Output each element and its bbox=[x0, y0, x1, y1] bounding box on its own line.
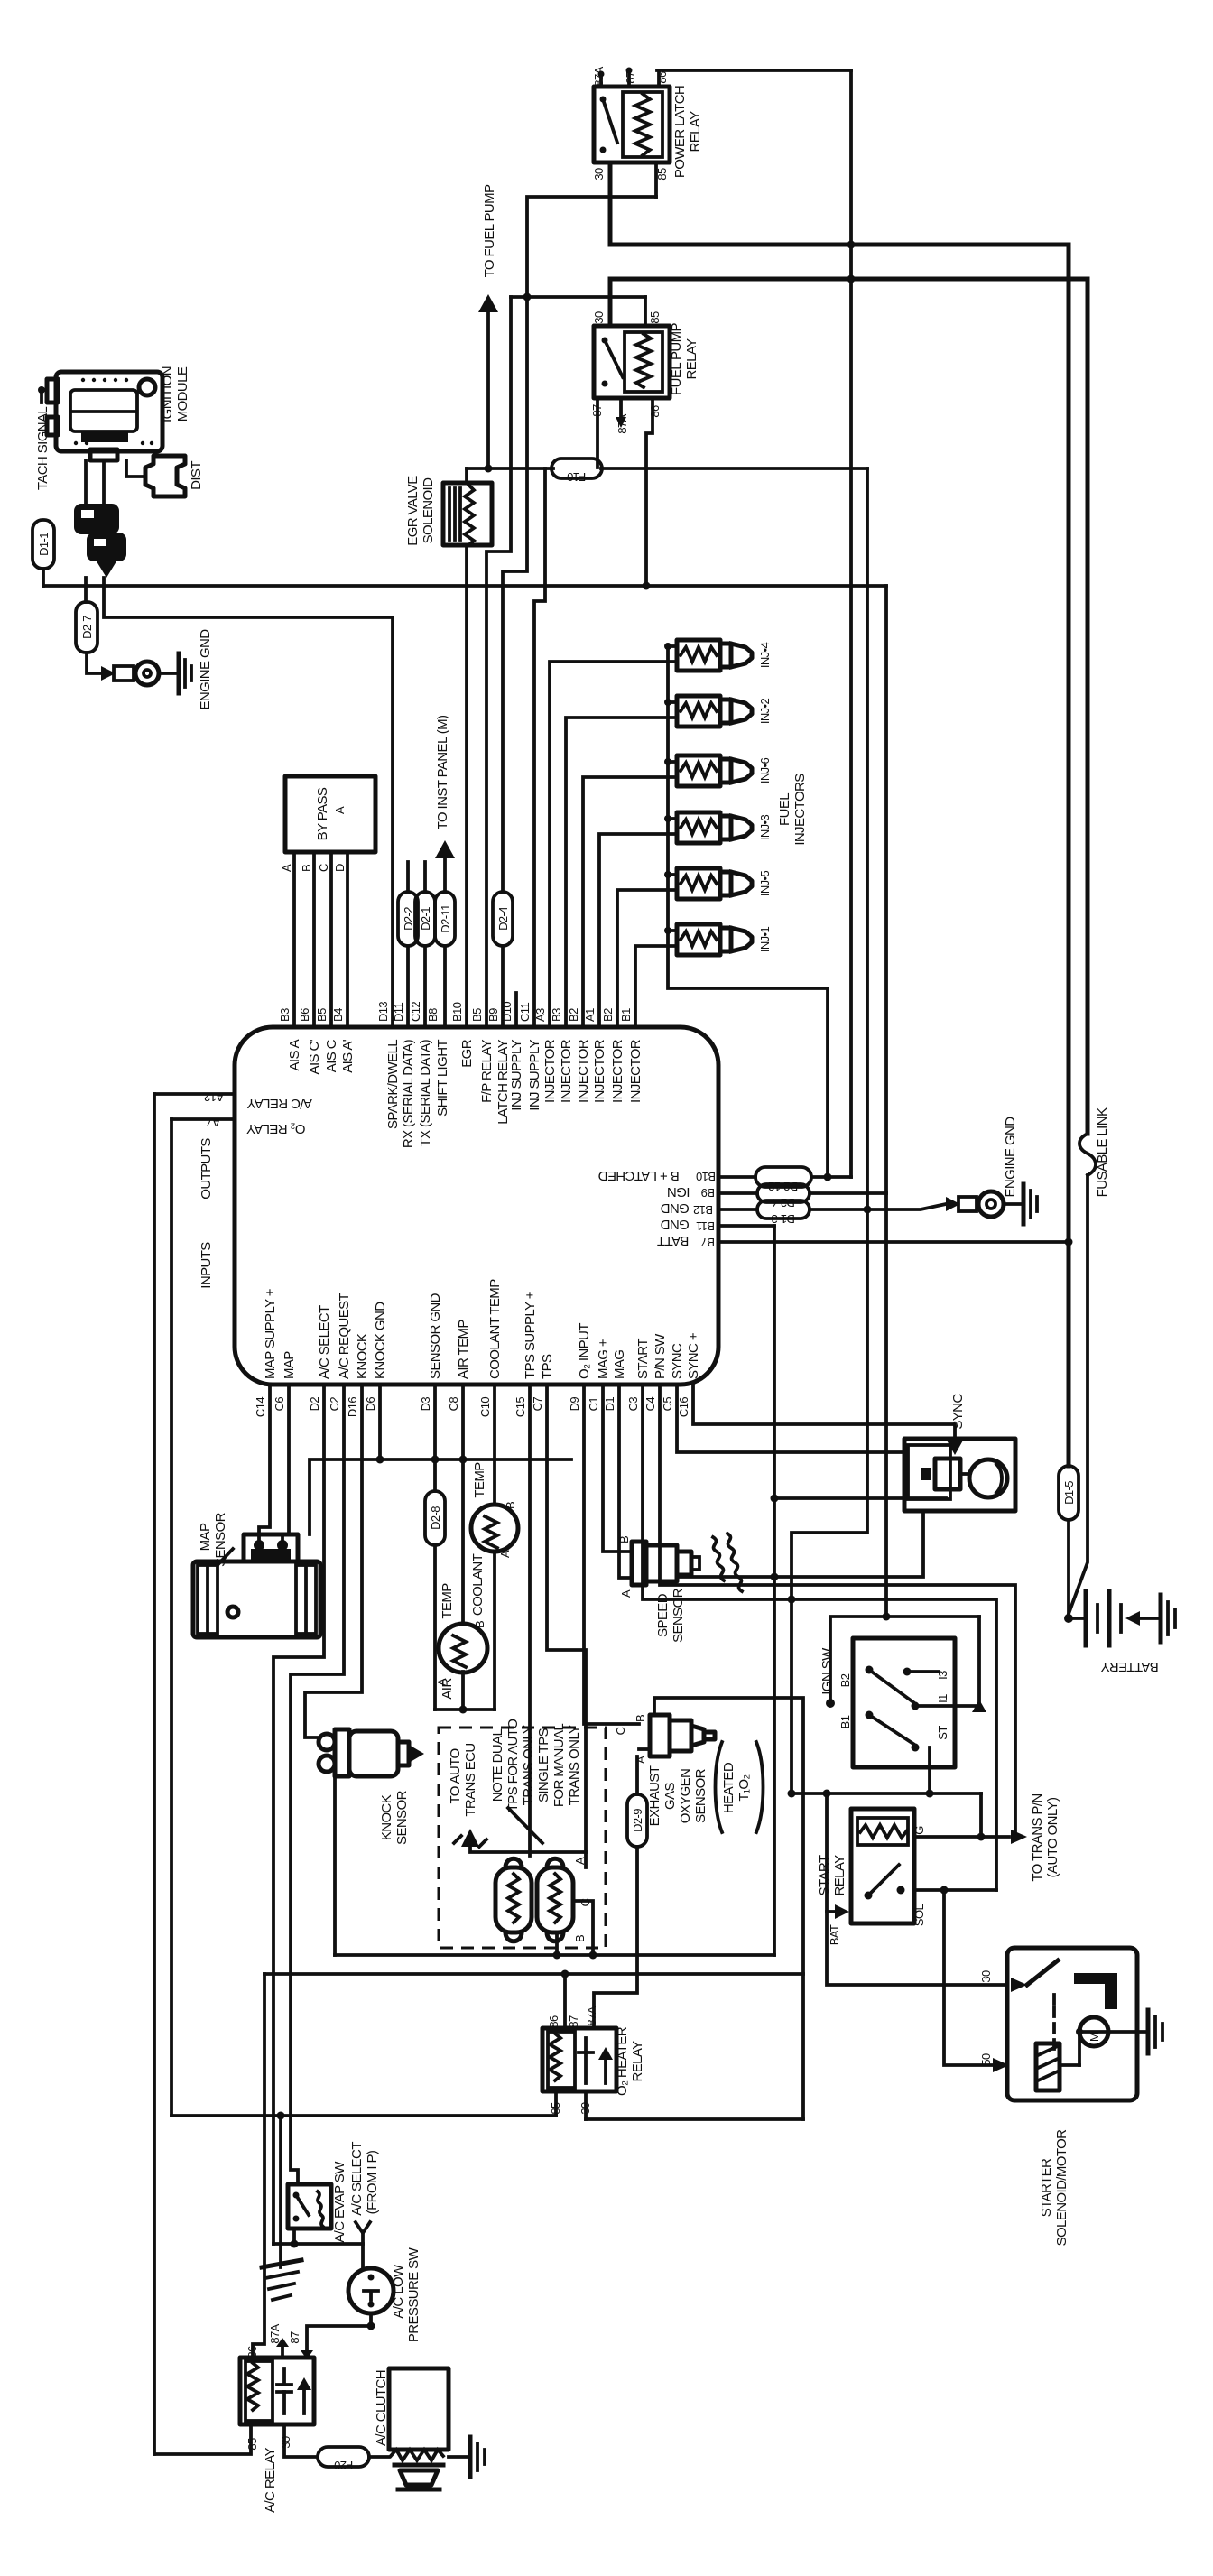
svg-text:TRANS ONLY: TRANS ONLY bbox=[567, 1725, 582, 1805]
EGO oxygen sensor bbox=[639, 1715, 715, 1756]
svg-text:MODULE: MODULE bbox=[175, 366, 190, 422]
svg-text:A: A bbox=[498, 1550, 512, 1558]
svg-text:85: 85 bbox=[648, 311, 662, 324]
wire C2 a/c request down bbox=[291, 1385, 344, 2184]
svg-text:D2-4: D2-4 bbox=[772, 1196, 795, 1209]
wire C4 P/N SW bbox=[660, 1385, 1015, 1837]
svg-text:INJECTOR: INJECTOR bbox=[628, 1039, 644, 1103]
svg-text:B7: B7 bbox=[701, 1236, 715, 1249]
wire C11 feed from F10 bbox=[534, 468, 545, 1027]
fuse F20 bbox=[318, 2447, 369, 2467]
power latch relay bbox=[594, 87, 670, 162]
svg-text:C: C bbox=[317, 864, 330, 872]
svg-text:C15: C15 bbox=[514, 1397, 527, 1417]
svg-text:D2-1: D2-1 bbox=[419, 907, 432, 931]
engine ground right lug bbox=[946, 1184, 1037, 1224]
svg-text:SOL: SOL bbox=[912, 1904, 926, 1927]
svg-text:KNOCK: KNOCK bbox=[379, 1794, 394, 1840]
wire A7 down left side bbox=[170, 1119, 173, 2116]
svg-text:B6: B6 bbox=[298, 1008, 311, 1022]
svg-text:A/C EVAP SW: A/C EVAP SW bbox=[332, 2161, 347, 2243]
svg-text:POWER LATCH: POWER LATCH bbox=[672, 86, 688, 178]
svg-text:C11: C11 bbox=[518, 1003, 532, 1022]
wire C8 air temp bbox=[461, 1385, 465, 1624]
svg-text:P/N SW: P/N SW bbox=[653, 1333, 668, 1379]
svg-text:86: 86 bbox=[245, 2346, 259, 2358]
svg-text:A/C RELAY: A/C RELAY bbox=[246, 1096, 311, 1111]
svg-text:B: B bbox=[473, 1621, 486, 1628]
A/C EVAP SW bbox=[288, 2184, 331, 2229]
svg-text:INJECTORS: INJECTORS bbox=[792, 774, 808, 846]
injector INJ-4 bbox=[677, 640, 752, 671]
wire FP 86 coil stub down bbox=[646, 398, 653, 586]
svg-text:F/P RELAY: F/P RELAY bbox=[479, 1039, 495, 1103]
connector D2-11 bbox=[435, 892, 455, 946]
svg-text:M: M bbox=[1088, 2033, 1101, 2042]
wire v1087 to G line bbox=[979, 1793, 983, 1837]
svg-text:AIS A: AIS A bbox=[287, 1039, 302, 1070]
svg-text:D2-2: D2-2 bbox=[402, 907, 415, 931]
svg-text:TO TRANS P/N: TO TRANS P/N bbox=[1030, 1793, 1045, 1881]
svg-text:D: D bbox=[333, 864, 347, 872]
svg-text:O₂ INPUT: O₂ INPUT bbox=[577, 1323, 592, 1379]
wire knock gnd down bbox=[333, 1776, 337, 1955]
svg-text:F20: F20 bbox=[334, 2459, 353, 2472]
svg-text:RX (SERIAL DATA): RX (SERIAL DATA) bbox=[401, 1039, 416, 1148]
svg-text:C1: C1 bbox=[587, 1397, 600, 1412]
injector INJ-6 bbox=[677, 755, 752, 786]
wire PL 30 stub down bbox=[608, 162, 613, 245]
ECU bottom signal names bbox=[263, 1279, 701, 1379]
svg-text:87A: 87A bbox=[268, 2323, 282, 2343]
svg-text:INJ•6: INJ•6 bbox=[758, 757, 772, 783]
svg-text:G: G bbox=[912, 1826, 926, 1835]
wire FP 87 stub down to F10 bbox=[596, 398, 599, 468]
svg-text:D2-8: D2-8 bbox=[429, 1506, 442, 1530]
dashed TPS note box bbox=[439, 1728, 606, 1948]
wire PL 87A stub bbox=[599, 76, 603, 87]
svg-text:C8: C8 bbox=[447, 1397, 460, 1412]
SYNC sensor box bbox=[904, 1439, 1015, 1511]
wire line A corner down to IGN bbox=[884, 586, 888, 1193]
svg-text:FUEL: FUEL bbox=[777, 793, 792, 826]
svg-text:86: 86 bbox=[648, 405, 662, 418]
wire G to trans p/n arrow bbox=[914, 1835, 1009, 1839]
wire evap feed y=2187 bbox=[264, 1972, 803, 1976]
distributor DIST bbox=[145, 456, 185, 496]
wire sensor ground bus y=1617 bbox=[310, 1459, 571, 1534]
node A7 O2 relay bbox=[171, 1117, 235, 1121]
svg-text:TX (SERIAL DATA): TX (SERIAL DATA) bbox=[418, 1039, 433, 1146]
svg-text:INJ•3: INJ•3 bbox=[758, 814, 772, 840]
svg-text:A: A bbox=[333, 806, 347, 814]
wire riser B2 to INJ-6 bbox=[583, 777, 677, 1027]
svg-text:START: START bbox=[817, 1855, 832, 1895]
svg-text:ST: ST bbox=[936, 1726, 949, 1740]
svg-text:(FROM I P): (FROM I P) bbox=[365, 2150, 380, 2214]
wire riser B1 to INJ-1 bbox=[635, 946, 677, 1027]
svg-text:B12: B12 bbox=[693, 1203, 713, 1217]
svg-text:D9: D9 bbox=[568, 1397, 581, 1412]
wire y=218 to left bbox=[527, 197, 656, 297]
connector D2-1 bbox=[423, 862, 427, 892]
connector D2-4 bbox=[493, 892, 513, 946]
svg-text:INPUTS: INPUTS bbox=[199, 1242, 214, 1289]
connector D2-7 bbox=[84, 578, 88, 602]
svg-text:A7: A7 bbox=[207, 1116, 220, 1129]
svg-text:HEATED: HEATED bbox=[721, 1762, 736, 1813]
svg-text:B10: B10 bbox=[696, 1170, 716, 1183]
wire SOL to starter 50 bbox=[914, 1888, 996, 1892]
svg-text:B8: B8 bbox=[426, 1008, 440, 1022]
EGR valve solenoid bbox=[443, 483, 492, 545]
svg-text:B3: B3 bbox=[278, 1008, 292, 1022]
svg-text:D1-1: D1-1 bbox=[37, 533, 51, 556]
svg-text:GAS: GAS bbox=[662, 1782, 678, 1809]
svg-text:BATTERY: BATTERY bbox=[1101, 1659, 1159, 1674]
svg-text:B2: B2 bbox=[567, 1008, 580, 1022]
svg-text:A/C SELECT: A/C SELECT bbox=[317, 1305, 332, 1379]
svg-text:A/C CLUTCH: A/C CLUTCH bbox=[374, 2370, 389, 2446]
svg-text:C10: C10 bbox=[478, 1397, 492, 1417]
wire FP coil top stub bbox=[644, 297, 647, 326]
wire pressure sw to relay 87 bbox=[307, 2313, 371, 2354]
connector blobs bbox=[74, 504, 126, 578]
TPS dual potentiometers bbox=[495, 1858, 573, 1941]
wire riser B2 to INJ-5 bbox=[617, 890, 677, 1027]
knock sensor bbox=[319, 1729, 424, 1776]
svg-text:A: A bbox=[280, 864, 293, 872]
svg-text:AIR TEMP: AIR TEMP bbox=[456, 1320, 471, 1379]
svg-text:B2: B2 bbox=[601, 1008, 615, 1022]
wire long line A y=649 bbox=[43, 584, 886, 588]
svg-text:O₂ HEATER: O₂ HEATER bbox=[615, 2026, 630, 2096]
svg-text:INJECTOR: INJECTOR bbox=[610, 1039, 625, 1103]
svg-text:D1: D1 bbox=[603, 1397, 616, 1412]
svg-text:D3: D3 bbox=[419, 1397, 432, 1412]
wire latch drive down x=584 jog 557 bbox=[503, 297, 527, 892]
svg-text:C3: C3 bbox=[626, 1397, 640, 1412]
svg-text:FOR MANUAL: FOR MANUAL bbox=[551, 1724, 567, 1808]
svg-text:FUSABLE LINK: FUSABLE LINK bbox=[1095, 1107, 1110, 1197]
coolant temp sensor bbox=[471, 1505, 518, 1552]
wire C10 coolant temp bbox=[493, 1385, 496, 1505]
wire module pin1 down bbox=[84, 460, 88, 505]
svg-text:EGR VALVE: EGR VALVE bbox=[405, 476, 421, 546]
svg-text:AIS A': AIS A' bbox=[340, 1039, 356, 1073]
wire gnd branch to starter area bbox=[792, 1209, 867, 1793]
svg-text:D10: D10 bbox=[500, 1002, 514, 1022]
svg-text:TO AUTO: TO AUTO bbox=[448, 1748, 463, 1803]
svg-text:EGR: EGR bbox=[459, 1039, 475, 1067]
node B11 GND bbox=[718, 1224, 774, 1228]
svg-text:SPARK/DWELL: SPARK/DWELL bbox=[385, 1040, 401, 1129]
START RELAY bbox=[851, 1809, 914, 1923]
svg-text:IGN SW: IGN SW bbox=[819, 1647, 835, 1695]
svg-text:ENGINE GND: ENGINE GND bbox=[198, 629, 213, 710]
node A12 A/C relay bbox=[154, 1092, 235, 1096]
connector D1-5 bbox=[1067, 1242, 1070, 1466]
svg-text:C16: C16 bbox=[677, 1397, 690, 1417]
fuel pump relay bbox=[594, 326, 670, 398]
svg-text:TACH SIGNAL: TACH SIGNAL bbox=[35, 407, 51, 491]
wire a/c relay 30 to clutch bbox=[284, 2424, 318, 2457]
wire C5 sync to box bbox=[677, 1385, 906, 1452]
wire a/c select link y=2486 bbox=[273, 2242, 363, 2246]
svg-text:30: 30 bbox=[979, 1970, 993, 1983]
wire C6 to MAP sensor bbox=[282, 1385, 289, 1545]
svg-text:B1: B1 bbox=[619, 1008, 633, 1022]
svg-text:D11: D11 bbox=[392, 1003, 405, 1022]
svg-text:ENGINE GND: ENGINE GND bbox=[1003, 1117, 1018, 1198]
wire bypass pin C bbox=[329, 852, 333, 1027]
wire riser A3 to INJ-4 bbox=[550, 662, 677, 1027]
svg-text:30: 30 bbox=[592, 311, 606, 324]
node B10 B+latched bbox=[718, 1175, 755, 1179]
fusable link bbox=[1079, 1134, 1096, 1175]
svg-text:D2-11: D2-11 bbox=[439, 904, 452, 933]
connector D1-1 bbox=[32, 520, 54, 569]
svg-text:SINGLE TPS: SINGLE TPS bbox=[536, 1728, 551, 1802]
svg-text:86: 86 bbox=[547, 2015, 560, 2028]
svg-text:D2-9: D2-9 bbox=[631, 1809, 644, 1832]
STARTER SOLENOID/MOTOR box bbox=[1007, 1948, 1137, 2100]
wire F10 feed line y=519 bbox=[467, 467, 553, 470]
svg-text:AIS C': AIS C' bbox=[307, 1039, 322, 1074]
svg-text:B9: B9 bbox=[486, 1008, 500, 1022]
wire temp sensor gnd link y=1894 bbox=[435, 1708, 495, 1711]
wire D16 knock signal bbox=[305, 1385, 362, 1737]
injector INJ-3 bbox=[677, 812, 752, 843]
wire long line B y=684 bbox=[104, 578, 393, 1027]
svg-text:B5: B5 bbox=[470, 1008, 484, 1022]
wire heater 86 stub bbox=[563, 1974, 567, 2028]
air temp sensor bbox=[439, 1624, 487, 1673]
svg-text:B5: B5 bbox=[315, 1008, 329, 1022]
IGN SW box bbox=[853, 1638, 955, 1767]
injector INJ-2 bbox=[677, 696, 752, 727]
svg-text:BY PASS: BY PASS bbox=[315, 787, 330, 840]
svg-text:MAP SUPPLY +: MAP SUPPLY + bbox=[263, 1288, 278, 1379]
svg-text:B11: B11 bbox=[696, 1219, 715, 1233]
svg-text:A/C LOW: A/C LOW bbox=[391, 2264, 406, 2319]
svg-text:B4: B4 bbox=[331, 1008, 345, 1022]
svg-text:A/C REQUEST: A/C REQUEST bbox=[337, 1293, 352, 1379]
svg-text:A/C RELAY: A/C RELAY bbox=[263, 2447, 278, 2512]
svg-text:C12: C12 bbox=[409, 1002, 422, 1022]
wire C1 mag+ to speed sensor bbox=[603, 1385, 632, 1552]
svg-text:KNOCK: KNOCK bbox=[355, 1333, 370, 1379]
wire fusable link vertical x=1205 bbox=[1086, 279, 1090, 1134]
wire B+ vertical x=943 bbox=[849, 70, 853, 1177]
svg-text:INJ•1: INJ•1 bbox=[758, 926, 772, 952]
svg-text:GND: GND bbox=[660, 1217, 689, 1232]
svg-text:D13: D13 bbox=[376, 1002, 390, 1022]
wire y=329 link bbox=[511, 295, 645, 299]
svg-text:IGNITION: IGNITION bbox=[160, 366, 175, 422]
wire evap bottom stub bbox=[292, 2229, 296, 2244]
svg-text:RELAY: RELAY bbox=[630, 2041, 645, 2082]
ECU top signal names bbox=[287, 1039, 644, 1148]
svg-text:RELAY: RELAY bbox=[684, 338, 699, 380]
svg-text:INJ SUPPLY: INJ SUPPLY bbox=[527, 1039, 542, 1110]
wire D6 knock gnd to bus bbox=[378, 1385, 382, 1459]
svg-text:TO FUEL PUMP: TO FUEL PUMP bbox=[482, 184, 497, 277]
wire bypass pin D bbox=[346, 852, 349, 1027]
wire injector supply bus bbox=[668, 646, 828, 1177]
wire riser B3 to INJ-2 bbox=[566, 718, 677, 1027]
svg-text:COOLANT TEMP: COOLANT TEMP bbox=[487, 1279, 503, 1379]
wire inj supply x=566 down jog 539 bbox=[486, 297, 511, 1027]
wire EGO heater loop bbox=[654, 1698, 803, 2119]
svg-text:SENSOR: SENSOR bbox=[213, 1512, 228, 1567]
svg-text:O₂ RELAY: O₂ RELAY bbox=[246, 1121, 306, 1136]
wire sync shield gnd bbox=[774, 1496, 946, 1500]
svg-text:BAT: BAT bbox=[828, 1924, 841, 1945]
A/C LOW PRESSURE SW bbox=[348, 2268, 394, 2313]
svg-text:87A: 87A bbox=[592, 66, 606, 86]
wire D1 mag to speed sensor bbox=[619, 1385, 632, 1578]
svg-text:A: A bbox=[619, 1589, 633, 1598]
svg-text:MAG: MAG bbox=[612, 1350, 627, 1379]
injector INJ-5 bbox=[677, 868, 752, 899]
svg-text:INJECTOR: INJECTOR bbox=[592, 1039, 607, 1103]
wire evap drop x=293 bbox=[253, 1974, 264, 2358]
svg-text:INJECTOR: INJECTOR bbox=[542, 1039, 558, 1103]
svg-text:SENSOR GND: SENSOR GND bbox=[428, 1293, 443, 1379]
node B7 BATT bbox=[718, 1240, 1069, 1244]
svg-text:D16: D16 bbox=[346, 1397, 359, 1417]
svg-text:T₁O₂: T₁O₂ bbox=[736, 1774, 752, 1802]
svg-text:KNOCK GND: KNOCK GND bbox=[373, 1302, 388, 1379]
ignition module bbox=[47, 372, 162, 460]
svg-text:INJ•4: INJ•4 bbox=[758, 642, 772, 668]
svg-text:C14: C14 bbox=[254, 1397, 267, 1417]
wire PL coil top to top line bbox=[657, 70, 661, 87]
svg-text:AIS C: AIS C bbox=[324, 1039, 339, 1072]
wire battery main vertical x=1184 bbox=[1067, 245, 1071, 1466]
svg-text:B + LATCHED: B + LATCHED bbox=[598, 1168, 680, 1183]
svg-text:OXYGEN: OXYGEN bbox=[678, 1769, 693, 1824]
wire knock gnd bus y=2166 bbox=[335, 1953, 774, 1957]
wire TPS C stub bbox=[573, 1901, 593, 1955]
connector D2-8 bbox=[425, 1491, 445, 1545]
svg-text:B: B bbox=[634, 1715, 647, 1722]
svg-text:B2: B2 bbox=[838, 1673, 852, 1687]
junction crossings bbox=[847, 241, 856, 249]
svg-text:SYNC: SYNC bbox=[950, 1394, 966, 1430]
svg-text:C5: C5 bbox=[661, 1397, 674, 1412]
wire A7 ground line y=2344 bbox=[171, 2114, 556, 2117]
svg-text:RELAY: RELAY bbox=[688, 111, 703, 153]
svg-text:MAP: MAP bbox=[282, 1351, 297, 1379]
svg-text:A3: A3 bbox=[533, 1008, 547, 1022]
svg-text:INJECTOR: INJECTOR bbox=[576, 1039, 591, 1103]
wire bypass pin A bbox=[292, 852, 296, 1027]
svg-text:TO INST PANEL (M): TO INST PANEL (M) bbox=[435, 715, 450, 829]
wire D9 O2 input bbox=[584, 1385, 639, 1724]
svg-text:BATT: BATT bbox=[657, 1233, 689, 1248]
svg-text:D2-12: D2-12 bbox=[768, 1180, 798, 1193]
ECU main box bbox=[235, 1027, 718, 1385]
svg-text:SENSOR: SENSOR bbox=[693, 1768, 708, 1823]
svg-text:A12: A12 bbox=[204, 1090, 224, 1104]
svg-text:DIST: DIST bbox=[189, 461, 204, 490]
svg-text:TEMP: TEMP bbox=[472, 1462, 487, 1498]
wire EGO A to heater relay via D2-9 bbox=[635, 1756, 639, 1794]
wire sync pickup bottom to C5 path bbox=[677, 1511, 923, 1577]
svg-text:IGN: IGN bbox=[668, 1184, 690, 1200]
svg-text:EXHAUST: EXHAUST bbox=[647, 1765, 662, 1826]
svg-text:AIR: AIR bbox=[440, 1678, 455, 1700]
wire battery feed to starter 30 bbox=[827, 1793, 1007, 1985]
svg-text:B: B bbox=[300, 865, 313, 872]
svg-text:TPS SUPPLY +: TPS SUPPLY + bbox=[523, 1291, 538, 1379]
svg-text:D1-5: D1-5 bbox=[1062, 1481, 1076, 1505]
wire D2-7 to engine gnd bbox=[87, 653, 101, 673]
wire FP 30 stub up bbox=[608, 279, 613, 326]
svg-text:D2-4: D2-4 bbox=[496, 907, 510, 931]
svg-text:SHIFT LIGHT: SHIFT LIGHT bbox=[435, 1040, 450, 1117]
svg-text:87A: 87A bbox=[585, 2006, 598, 2025]
svg-text:(AUTO ONLY): (AUTO ONLY) bbox=[1045, 1797, 1060, 1877]
svg-text:I3: I3 bbox=[936, 1671, 949, 1680]
svg-text:F10: F10 bbox=[567, 470, 586, 484]
svg-text:B1: B1 bbox=[838, 1715, 852, 1728]
svg-text:SYNC: SYNC bbox=[670, 1343, 685, 1379]
svg-text:A/C SELECT: A/C SELECT bbox=[349, 2142, 365, 2216]
svg-text:SOLENOID/MOTOR: SOLENOID/MOTOR bbox=[1054, 2129, 1069, 2247]
svg-text:MAG +: MAG + bbox=[596, 1339, 611, 1379]
speed sensor bbox=[632, 1534, 742, 1591]
svg-text:D2-7: D2-7 bbox=[80, 616, 94, 639]
wire module pin2 down bbox=[102, 460, 106, 505]
A/C CLUTCH bbox=[389, 2368, 449, 2489]
clutch ground bbox=[449, 2455, 470, 2459]
svg-text:D2: D2 bbox=[308, 1397, 321, 1412]
wire FP 87A stub open bbox=[619, 398, 623, 417]
svg-text:NOTE DUAL: NOTE DUAL bbox=[490, 1729, 505, 1802]
svg-text:30: 30 bbox=[592, 168, 606, 181]
wire ign sw I1 line bbox=[919, 1617, 979, 1706]
node B12 GND bbox=[718, 1208, 757, 1211]
svg-text:C6: C6 bbox=[273, 1397, 286, 1412]
wire B11 gnd down bbox=[773, 1226, 776, 1955]
svg-text:TRANS ECU: TRANS ECU bbox=[463, 1743, 478, 1816]
svg-text:STARTER: STARTER bbox=[1039, 2158, 1054, 2217]
starter ground bbox=[1108, 2030, 1148, 2034]
svg-text:MAP: MAP bbox=[198, 1523, 213, 1551]
wire PL 87 stub bbox=[627, 72, 631, 87]
wire heater 30 stub bbox=[584, 2091, 588, 2119]
wire heater 85 stub bbox=[554, 2091, 558, 2116]
wire battery feed y=271 bbox=[610, 243, 1069, 247]
wire C15 TPS supply bbox=[528, 1385, 532, 1856]
svg-text:FUEL PUMP: FUEL PUMP bbox=[669, 322, 684, 394]
svg-text:SOLENOID: SOLENOID bbox=[421, 477, 436, 543]
svg-text:INJ SUPPLY: INJ SUPPLY bbox=[509, 1039, 524, 1110]
svg-text:GND: GND bbox=[660, 1200, 689, 1216]
ECU top pin labels bbox=[278, 1002, 633, 1022]
svg-text:B9: B9 bbox=[701, 1186, 715, 1200]
svg-text:C7: C7 bbox=[531, 1397, 544, 1412]
wire C3 START bbox=[643, 1385, 996, 1890]
svg-text:SYNC +: SYNC + bbox=[686, 1332, 701, 1379]
svg-text:50: 50 bbox=[979, 2053, 993, 2066]
svg-text:TPS: TPS bbox=[540, 1354, 555, 1379]
bypass box bbox=[285, 776, 375, 852]
ECU bottom pin labels bbox=[254, 1397, 690, 1417]
